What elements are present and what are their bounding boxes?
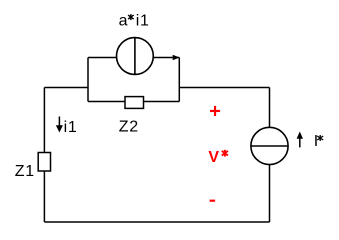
svg-text:I: I [314,133,318,150]
dependent current source U1 (a*i1) [116,38,153,75]
svg-text:Z1: Z1 [15,163,35,180]
svg-text:a: a [119,13,128,30]
node label + (positive terminal of V*) [210,106,220,116]
svg-text:V: V [208,149,219,166]
arrowhead: output current direction of a*i1 [173,55,180,60]
wire: right vertical (through I* source position) [269,88,271,223]
node label - (negative terminal of V*) [210,200,216,202]
wire: left vertical (through Z1 position) [43,88,45,223]
wire: bottom branch (through Z2) [88,101,179,103]
wire: top branch (through a*i1 source) [88,57,179,59]
impedance Z1 (rectangle) [38,153,50,172]
independent current source I* [251,127,288,164]
wire: top-left horizontal segment (node A to parallel section) [44,87,88,89]
svg-text:i1: i1 [136,13,150,30]
wire: parallel-section left bar [87,58,89,102]
current arrow i1 (downward) [56,117,63,133]
wire: top-right horizontal segment (parallel section to node B) [179,87,269,89]
wire: parallel-section right bar [178,58,180,102]
current arrow of I* (upward) [297,132,303,148]
svg-text:i1: i1 [64,119,78,136]
impedance Z2 (rectangle) [125,97,144,109]
wire: bottom horizontal [44,221,269,223]
svg-text:Z2: Z2 [119,119,139,136]
